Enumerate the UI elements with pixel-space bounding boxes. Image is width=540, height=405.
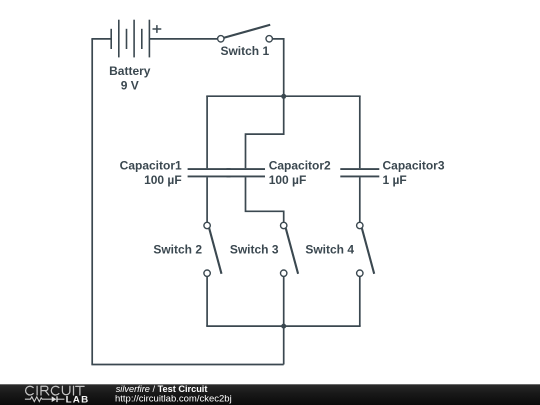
svg-text:Switch 4: Switch 4 xyxy=(305,242,354,256)
svg-text:100 µF: 100 µF xyxy=(269,173,307,187)
capacitor C3 plates xyxy=(340,169,379,176)
svg-text:Switch 3: Switch 3 xyxy=(230,242,279,256)
wire switch1 to top bus xyxy=(272,39,283,96)
node junction bottom xyxy=(281,324,286,329)
wire top bus xyxy=(206,95,360,97)
wire SW4 bottom lead xyxy=(359,276,361,326)
capacitor C2 plates xyxy=(227,169,266,176)
logo diode xyxy=(52,396,65,402)
svg-text:9 V: 9 V xyxy=(121,79,139,93)
svg-text:Switch 2: Switch 2 xyxy=(153,242,202,256)
wire left rail xyxy=(91,39,93,365)
logo resistor zigzag xyxy=(25,397,52,402)
svg-text:Battery: Battery xyxy=(109,64,151,78)
capacitor C1 plates xyxy=(188,169,231,176)
wire SW3 bottom lead xyxy=(283,276,285,326)
wire C1 top lead xyxy=(206,96,208,168)
node junction top xyxy=(281,94,286,99)
svg-text:Capacitor2: Capacitor2 xyxy=(269,158,331,172)
wire C2 bottom lead xyxy=(246,177,284,222)
switch SW1 xyxy=(218,25,273,42)
svg-text:Capacitor3: Capacitor3 xyxy=(383,158,445,172)
svg-text:http://circuitlab.com/ckec2bj: http://circuitlab.com/ckec2bj xyxy=(115,394,232,405)
wire bottom bus to bottom rail xyxy=(283,326,285,364)
wire SW2 bottom lead xyxy=(206,276,208,326)
svg-text:Capacitor1: Capacitor1 xyxy=(120,158,182,172)
svg-text:1 µF: 1 µF xyxy=(383,173,407,187)
svg-text:Switch 1: Switch 1 xyxy=(220,44,269,58)
switch SW3 xyxy=(281,222,299,276)
wire C1 bottom lead xyxy=(206,177,208,222)
svg-text:LAB: LAB xyxy=(66,395,90,405)
logo CIRCUIT lettering xyxy=(26,386,85,395)
wire C3 top lead xyxy=(359,96,361,168)
wire C3 bottom lead xyxy=(359,177,361,222)
battery V1 xyxy=(111,20,161,58)
switch SW4 xyxy=(357,222,375,276)
wire bottom bus xyxy=(206,325,360,327)
wire bottom rail xyxy=(91,364,283,366)
svg-text:silverfire / Test Circuit: silverfire / Test Circuit xyxy=(116,384,208,394)
svg-text:100 µF: 100 µF xyxy=(144,173,182,187)
wire C2 top lead xyxy=(246,96,284,168)
wire battery left lead xyxy=(91,38,111,40)
switch SW2 xyxy=(204,222,222,276)
wire battery to switch1 xyxy=(149,38,217,40)
